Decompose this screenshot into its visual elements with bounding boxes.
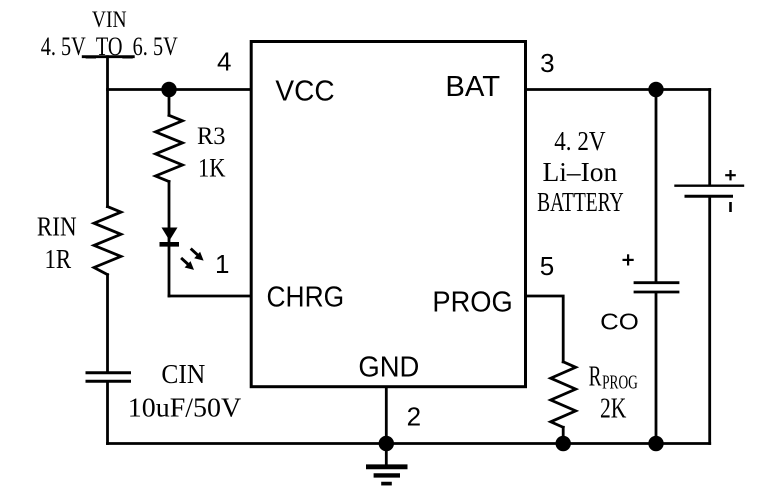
resistor RPROG [551, 362, 576, 428]
svg-text:PROG: PROG [602, 372, 638, 394]
svg-text:10uF/50V: 10uF/50V [128, 393, 242, 423]
svg-text:BATTERY: BATTERY [537, 187, 624, 217]
wire: BAT node down to CO top plate [655, 90, 658, 282]
IC U1 body [251, 42, 525, 387]
svg-text:1K: 1K [198, 153, 226, 182]
svg-text:4. 5V_TO_6. 5V: 4. 5V_TO_6. 5V [41, 32, 178, 61]
wire: GND pin down to ground rail [385, 387, 388, 444]
wire: top horizontal VIN node to VCC pin [108, 88, 252, 91]
svg-text:PROG: PROG [432, 287, 512, 319]
battery - polarity mark [729, 202, 732, 212]
svg-text:1R: 1R [45, 244, 72, 274]
wire: PROG pin right then down to RPROG [526, 296, 564, 362]
svg-text:CO: CO [600, 309, 639, 335]
svg-text:RIN: RIN [37, 212, 77, 242]
wire: ground rail to ground symbol [385, 444, 388, 465]
wire: right rail down to battery + plate [708, 90, 711, 185]
wire: BAT pin to right rail [526, 88, 710, 91]
wire: bottom ground rail [108, 442, 710, 445]
svg-text:VCC: VCC [275, 76, 334, 108]
VIN terminal bar [83, 55, 133, 58]
wire: VIN bar down left rail to RIN top [106, 57, 109, 207]
wire: VIN node down to R3 top [168, 90, 171, 116]
wire: CO bottom plate to ground rail [655, 293, 658, 443]
node: GND rail junction dot [379, 436, 394, 451]
svg-text:4. 2V: 4. 2V [554, 126, 606, 156]
node: CO rail junction dot [648, 436, 663, 451]
svg-text:4: 4 [217, 47, 231, 77]
capacitor CO plates [635, 281, 678, 284]
svg-text:2K: 2K [600, 394, 626, 425]
svg-text:5: 5 [540, 251, 554, 281]
LED D1 arrow 2 [181, 258, 194, 270]
capacitor CO + polarity mark [623, 254, 634, 265]
wire: RIN bottom to CIN top plate [106, 275, 109, 372]
LED D1 triangle [162, 228, 178, 241]
wire: battery - plate down to ground rail [708, 198, 711, 444]
node: BAT junction dot [648, 82, 663, 97]
resistor RIN [94, 207, 121, 275]
svg-text:GND: GND [358, 352, 419, 384]
ground symbol [366, 467, 408, 484]
svg-text:CIN: CIN [161, 359, 205, 389]
LED D1 cathode bar [160, 242, 180, 247]
wire: R3 bottom through LED to CHRG corner [168, 182, 171, 297]
capacitor CIN [87, 371, 130, 374]
svg-text:2: 2 [407, 402, 421, 432]
wire: CIN bottom plate to ground rail [106, 383, 109, 444]
svg-text:3: 3 [540, 48, 554, 78]
battery B1 plates [676, 184, 744, 186]
LED D1 arrow 1 [191, 249, 204, 261]
svg-text:VIN: VIN [92, 7, 127, 32]
svg-text:R: R [589, 362, 602, 393]
svg-text:Li–Ion: Li–Ion [543, 157, 618, 187]
node: VIN junction dot [161, 82, 176, 97]
wire: RPROG bottom to ground rail [562, 427, 565, 443]
node: RPROG rail junction dot [556, 436, 571, 451]
svg-text:CHRG: CHRG [267, 282, 345, 314]
svg-text:BAT: BAT [445, 71, 500, 103]
wire: LED cathode to CHRG pin [169, 295, 251, 298]
battery + polarity mark [725, 170, 736, 180]
resistor R3 [156, 115, 183, 181]
svg-text:R3: R3 [197, 123, 226, 150]
svg-text:1: 1 [215, 249, 229, 279]
